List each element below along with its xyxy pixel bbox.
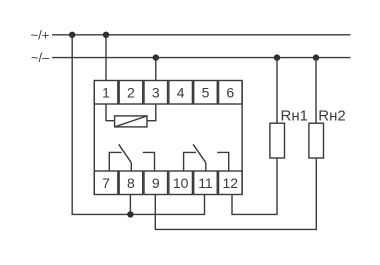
contact K1.2: fixed contact from terminal 10: [184, 152, 196, 171]
contact K1.1: moving blade to terminal 8: [119, 144, 132, 171]
svg-text:11: 11: [198, 175, 213, 191]
wire: + rail down left side and along bottom to terminal 11: [72, 35, 204, 215]
terminal 12: [219, 171, 243, 195]
node: junction of - rail and terminal 3 wire: [153, 54, 159, 60]
terminal 1: [94, 81, 118, 105]
svg-text:4: 4: [177, 84, 185, 100]
svg-text:9: 9: [152, 175, 160, 191]
wire: coil right lead to terminal 3: [147, 104, 156, 121]
svg-text:7: 7: [102, 175, 110, 191]
terminal 3: [144, 81, 168, 105]
wire: - rail to load Rh1 top: [276, 58, 278, 124]
svg-text:12: 12: [223, 175, 239, 191]
terminal 8: [119, 171, 143, 195]
svg-text:~/+: ~/+: [31, 27, 50, 42]
svg-text:Rн1: Rн1: [281, 108, 308, 125]
device outline right side: [241, 81, 243, 195]
device outline left side: [93, 81, 95, 195]
node: junction of bottom + wire and terminal 8 stub: [127, 211, 133, 217]
svg-text:1: 1: [102, 84, 110, 100]
contact K1.1: fixed contact from terminal 9: [143, 152, 155, 171]
wire: - rail to load Rh2 top: [315, 58, 317, 124]
node: junction of - rail and Rh2 wire: [313, 54, 319, 60]
svg-text:~/–: ~/–: [31, 50, 50, 65]
node: junction of + rail and terminal 1 wire: [103, 32, 109, 38]
wire: terminal 9 to bottom of load Rh2: [155, 158, 316, 229]
wire: - supply rail: [52, 57, 351, 59]
load resistor Rh1: [270, 108, 308, 158]
node: junction of + rail and left drop wire: [69, 32, 75, 38]
terminal 6: [219, 81, 243, 105]
wire: + rail to terminal 1: [105, 35, 107, 81]
svg-text:5: 5: [202, 84, 210, 100]
wire: terminal 8 stub to bottom + wire: [129, 195, 131, 215]
contact K1.1: fixed contact from terminal 7: [109, 152, 121, 171]
terminal 9: [144, 171, 168, 195]
svg-text:8: 8: [127, 175, 135, 191]
wire: + supply rail: [52, 34, 351, 36]
net label ~/-: [31, 50, 50, 65]
svg-text:10: 10: [173, 175, 189, 191]
load resistor Rh2: [309, 108, 346, 158]
contact K1.2: moving blade to terminal 11: [193, 144, 206, 171]
wire: - rail to terminal 3: [155, 58, 157, 81]
terminal 2: [119, 81, 143, 105]
svg-text:Rн2: Rн2: [318, 108, 345, 125]
wire: terminal 12 to bottom of load Rh1: [232, 158, 277, 214]
contact K1.2: fixed contact from terminal 12: [217, 152, 229, 171]
svg-text:6: 6: [226, 84, 234, 100]
wire: terminal 1 to coil left lead: [106, 104, 115, 121]
terminal 10: [169, 171, 193, 195]
terminal 7: [94, 171, 118, 195]
terminal 5: [194, 81, 218, 105]
terminal 11: [194, 171, 218, 195]
svg-text:3: 3: [152, 84, 160, 100]
relay coil K1: [115, 116, 147, 127]
net label ~/+: [31, 27, 50, 42]
terminal 4: [169, 81, 193, 105]
node: junction of - rail and Rh1 wire: [274, 54, 280, 60]
svg-text:2: 2: [127, 84, 135, 100]
